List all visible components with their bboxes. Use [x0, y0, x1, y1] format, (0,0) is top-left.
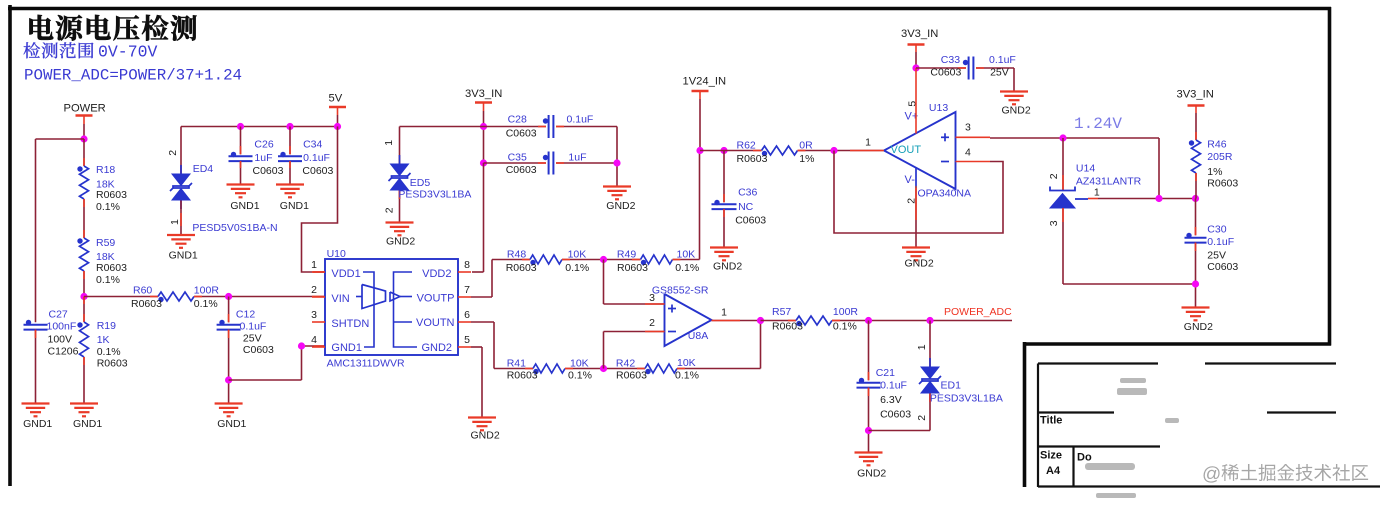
- svg-text:8: 8: [464, 259, 470, 271]
- svg-text:1K: 1K: [97, 334, 110, 346]
- svg-text:R0603: R0603: [737, 153, 768, 165]
- svg-text:0.1%: 0.1%: [565, 262, 589, 274]
- svg-text:C27: C27: [49, 308, 68, 320]
- svg-text:1: 1: [916, 344, 928, 350]
- svg-text:25V: 25V: [990, 66, 1009, 78]
- svg-text:VOUTN: VOUTN: [416, 317, 455, 329]
- svg-text:1V24_IN: 1V24_IN: [683, 75, 727, 87]
- svg-text:GND1: GND1: [331, 342, 362, 354]
- svg-text:6.3V: 6.3V: [880, 394, 902, 406]
- svg-text:R59: R59: [96, 237, 115, 249]
- svg-text:C33: C33: [941, 54, 960, 66]
- svg-text:2: 2: [167, 150, 179, 156]
- svg-text:0V-70V: 0V-70V: [98, 43, 158, 62]
- svg-text:3V3_IN: 3V3_IN: [465, 88, 502, 100]
- svg-text:PESD3V3L1BA: PESD3V3L1BA: [930, 393, 1003, 405]
- svg-text:GND1: GND1: [217, 418, 246, 430]
- svg-text:4: 4: [965, 146, 971, 158]
- svg-text:C26: C26: [254, 138, 273, 150]
- svg-text:3: 3: [649, 292, 655, 304]
- svg-text:0.1%: 0.1%: [675, 262, 699, 274]
- svg-text:U13: U13: [929, 102, 948, 114]
- svg-text:C0603: C0603: [302, 165, 333, 177]
- svg-text:POWER: POWER: [64, 102, 106, 114]
- svg-text:C0603: C0603: [243, 344, 274, 356]
- svg-text:C28: C28: [508, 114, 527, 126]
- svg-text:GND1: GND1: [230, 200, 259, 212]
- svg-text:4: 4: [311, 334, 317, 346]
- svg-text:A4: A4: [1046, 465, 1061, 477]
- svg-text:R0603: R0603: [96, 189, 127, 201]
- svg-text:PESD3V3L1BA: PESD3V3L1BA: [398, 188, 471, 200]
- svg-text:3V3_IN: 3V3_IN: [1177, 88, 1214, 100]
- svg-text:U10: U10: [327, 248, 346, 260]
- svg-text:1: 1: [311, 259, 317, 271]
- svg-text:R46: R46: [1207, 139, 1226, 151]
- svg-text:GND1: GND1: [280, 200, 309, 212]
- svg-text:R48: R48: [507, 249, 526, 261]
- svg-text:0.1uF: 0.1uF: [880, 379, 907, 391]
- svg-text:V-: V-: [905, 174, 916, 186]
- svg-text:GS8552-SR: GS8552-SR: [652, 285, 709, 297]
- svg-text:2: 2: [916, 415, 928, 421]
- svg-text:5V: 5V: [329, 92, 343, 104]
- svg-text:C0603: C0603: [880, 408, 911, 420]
- svg-text:0.1%: 0.1%: [833, 321, 857, 333]
- svg-text:R41: R41: [507, 357, 526, 369]
- svg-text:205R: 205R: [1207, 151, 1233, 163]
- svg-text:PESD5V0S1BA-N: PESD5V0S1BA-N: [192, 222, 277, 234]
- svg-text:VDD1: VDD1: [331, 268, 360, 280]
- svg-text:0.1%: 0.1%: [96, 201, 120, 213]
- svg-text:R0603: R0603: [507, 369, 538, 381]
- svg-text:VDD2: VDD2: [422, 268, 451, 280]
- svg-text:GND2: GND2: [421, 342, 452, 354]
- svg-text:R62: R62: [737, 140, 756, 152]
- svg-text:VIN: VIN: [331, 293, 349, 305]
- svg-text:1%: 1%: [1207, 166, 1222, 178]
- svg-text:GND2: GND2: [857, 467, 886, 479]
- svg-text:C0603: C0603: [735, 215, 766, 227]
- svg-text:100nF: 100nF: [47, 320, 77, 332]
- svg-text:AMC1311DWVR: AMC1311DWVR: [327, 357, 405, 369]
- svg-text:R0603: R0603: [617, 262, 648, 274]
- svg-text:R0603: R0603: [96, 262, 127, 274]
- svg-text:ED4: ED4: [193, 163, 214, 175]
- svg-text:R18: R18: [96, 164, 115, 176]
- svg-text:3: 3: [965, 121, 971, 133]
- svg-text:C0603: C0603: [1207, 261, 1238, 273]
- svg-text:1: 1: [169, 219, 181, 225]
- svg-text:GND2: GND2: [1184, 321, 1213, 333]
- svg-text:3: 3: [311, 309, 317, 321]
- svg-text:0.1%: 0.1%: [97, 346, 121, 358]
- svg-text:SHTDN: SHTDN: [331, 318, 369, 330]
- svg-text:C1206: C1206: [48, 346, 79, 358]
- svg-text:C36: C36: [738, 187, 757, 199]
- svg-text:1: 1: [1094, 186, 1100, 198]
- svg-text:OPA340NA: OPA340NA: [918, 187, 972, 199]
- svg-text:C21: C21: [876, 367, 895, 379]
- svg-text:100V: 100V: [48, 333, 73, 345]
- svg-text:POWER_ADC: POWER_ADC: [944, 306, 1012, 318]
- svg-text:C30: C30: [1207, 224, 1226, 236]
- svg-text:25V: 25V: [243, 332, 262, 344]
- svg-text:GND1: GND1: [169, 249, 198, 261]
- svg-text:R49: R49: [617, 249, 636, 261]
- svg-text:R0603: R0603: [131, 298, 162, 310]
- svg-text:GND2: GND2: [713, 261, 742, 273]
- svg-text:Title: Title: [1040, 415, 1062, 427]
- svg-text:U14: U14: [1076, 162, 1095, 174]
- svg-text:GND2: GND2: [386, 236, 415, 248]
- svg-text:VOUT: VOUT: [891, 144, 922, 156]
- svg-text:7: 7: [464, 284, 470, 296]
- svg-text:C35: C35: [508, 152, 527, 164]
- svg-text:0.1uF: 0.1uF: [567, 114, 594, 126]
- svg-text:1%: 1%: [799, 153, 814, 165]
- svg-text:0.1%: 0.1%: [194, 298, 218, 310]
- svg-text:Size: Size: [1040, 450, 1062, 462]
- svg-text:100R: 100R: [194, 285, 220, 297]
- svg-text:0.1uF: 0.1uF: [240, 320, 267, 332]
- svg-text:C0603: C0603: [506, 164, 537, 176]
- svg-text:R57: R57: [772, 306, 791, 318]
- svg-text:AZ431LANTR: AZ431LANTR: [1076, 175, 1142, 187]
- svg-text:C12: C12: [236, 308, 255, 320]
- svg-text:VOUTP: VOUTP: [417, 292, 455, 304]
- svg-text:ED1: ED1: [941, 379, 962, 391]
- svg-text:1.24V: 1.24V: [1074, 115, 1122, 133]
- svg-text:1: 1: [865, 136, 871, 148]
- svg-text:C0603: C0603: [506, 127, 537, 139]
- svg-text:2: 2: [311, 284, 317, 296]
- svg-text:100R: 100R: [833, 306, 859, 318]
- svg-text:R0603: R0603: [97, 357, 128, 369]
- svg-text:R60: R60: [133, 285, 152, 297]
- svg-text:R0603: R0603: [506, 262, 537, 274]
- svg-text:C0603: C0603: [930, 66, 961, 78]
- svg-text:GND2: GND2: [905, 257, 934, 269]
- svg-text:1uF: 1uF: [568, 152, 586, 164]
- svg-text:1: 1: [383, 140, 395, 146]
- svg-text:0.1%: 0.1%: [96, 274, 120, 286]
- svg-text:5: 5: [464, 334, 470, 346]
- svg-text:0.1uF: 0.1uF: [1207, 236, 1234, 248]
- svg-text:0.1uF: 0.1uF: [303, 152, 330, 164]
- svg-text:R42: R42: [616, 357, 635, 369]
- svg-text:2: 2: [1048, 173, 1060, 179]
- svg-text:0.1uF: 0.1uF: [989, 54, 1016, 66]
- svg-text:Do: Do: [1077, 452, 1092, 464]
- svg-text:GND2: GND2: [606, 200, 635, 212]
- svg-text:2: 2: [384, 207, 396, 213]
- svg-text:1: 1: [721, 306, 727, 318]
- svg-text:6: 6: [464, 309, 470, 321]
- svg-text:NC: NC: [738, 201, 754, 213]
- svg-text:25V: 25V: [1207, 250, 1226, 262]
- svg-text:3: 3: [1048, 220, 1060, 226]
- svg-text:C0603: C0603: [253, 165, 284, 177]
- svg-text:3V3_IN: 3V3_IN: [901, 28, 938, 40]
- svg-text:R19: R19: [97, 320, 116, 332]
- svg-text:GND2: GND2: [471, 429, 500, 441]
- svg-text:GND1: GND1: [23, 418, 52, 430]
- svg-text:GND1: GND1: [73, 418, 102, 430]
- svg-text:1uF: 1uF: [254, 152, 272, 164]
- svg-text:U8A: U8A: [688, 330, 708, 342]
- svg-text:R0603: R0603: [1207, 178, 1238, 190]
- svg-text:10K: 10K: [570, 357, 589, 369]
- svg-text:R0603: R0603: [772, 321, 803, 333]
- svg-text:C34: C34: [303, 138, 322, 150]
- svg-text:10K: 10K: [677, 357, 696, 369]
- svg-text:R0603: R0603: [616, 369, 647, 381]
- svg-text:GND2: GND2: [1002, 104, 1031, 116]
- svg-text:0.1%: 0.1%: [675, 369, 699, 381]
- svg-text:0.1%: 0.1%: [568, 369, 592, 381]
- svg-text:2: 2: [649, 317, 655, 329]
- svg-text:POWER_ADC=POWER/37+1.24: POWER_ADC=POWER/37+1.24: [24, 66, 242, 84]
